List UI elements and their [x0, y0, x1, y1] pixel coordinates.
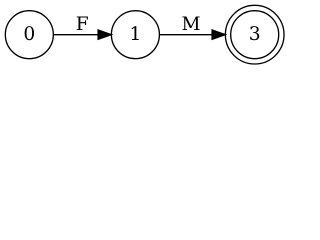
edge label M [182, 16, 199, 30]
state node 0 (circle) [5, 11, 53, 59]
arrowhead of edge 1 to 3 [212, 30, 225, 39]
label 0 of state node 0 [25, 26, 34, 40]
edge label F [77, 16, 88, 30]
label 3 of state node 3 [250, 26, 259, 40]
state node 3 (accepting state, double circle) inner circle [231, 11, 279, 59]
arrowhead of edge 0 to 1 [98, 30, 111, 39]
edge wire from node 0 to node 1 [54, 34, 99, 36]
state node 1 (circle) [111, 11, 159, 59]
edge wire from node 1 to node 3 [160, 34, 213, 36]
state node 3 outer circle [225, 5, 284, 64]
label 1 of state node 1 [132, 26, 139, 40]
